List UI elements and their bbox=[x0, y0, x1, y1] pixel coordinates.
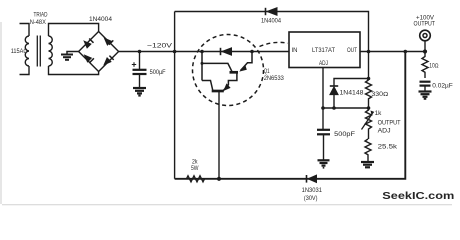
svg-text:ADJ: ADJ bbox=[319, 61, 328, 67]
svg-text:OUT: OUT bbox=[347, 48, 357, 54]
wire bottom rail bbox=[175, 52, 406, 179]
bridge diode D2 top-right bbox=[105, 38, 114, 45]
svg-text:500pF: 500pF bbox=[334, 132, 355, 138]
svg-text:2k: 2k bbox=[192, 160, 198, 166]
resistor R1 2k 5W bbox=[184, 176, 205, 182]
junction left riser on rail bbox=[173, 50, 177, 54]
svg-text:~120V: ~120V bbox=[147, 44, 172, 50]
junction C1 tap bbox=[138, 50, 142, 54]
regulator U1 LT317AT box bbox=[289, 32, 360, 68]
svg-text:500µF: 500µF bbox=[150, 70, 166, 76]
dashed callout to regulator bbox=[260, 42, 289, 46]
wire Q1 emitter to bottom rail bbox=[218, 91, 220, 179]
transistor Q1 driver emitter arrow bbox=[239, 65, 247, 72]
ground under R4 bbox=[361, 162, 374, 167]
transistor Q1 internal wiring bbox=[202, 52, 252, 91]
junction OUT bypass bbox=[367, 50, 371, 54]
wire top bypass bbox=[175, 12, 369, 52]
transformer T1 primary winding bbox=[20, 24, 30, 75]
svg-text:10Ω: 10Ω bbox=[429, 64, 439, 70]
Q1 dashed package circle bbox=[193, 35, 264, 106]
svg-text:1N4004: 1N4004 bbox=[261, 19, 282, 25]
resistor R5 10 ohm bbox=[422, 52, 428, 79]
svg-text:OUTPUT: OUTPUT bbox=[414, 22, 436, 28]
wire secondary bottom to bridge bbox=[49, 66, 99, 75]
svg-text:SeekIC.com: SeekIC.com bbox=[382, 191, 454, 202]
wire secondary top to bridge bbox=[49, 24, 99, 37]
svg-text:1N3031: 1N3031 bbox=[302, 188, 323, 194]
wire riser OUT to divider bbox=[368, 52, 370, 81]
capacitor C3 0.02uF bbox=[420, 82, 431, 91]
potentiometer R3 1k output adj bbox=[362, 108, 373, 139]
junction emitter bottom rail bbox=[217, 177, 221, 181]
svg-text:5W: 5W bbox=[191, 166, 199, 172]
wire OUT rail bbox=[360, 51, 425, 53]
bridge diode D4 bottom-right bbox=[104, 56, 114, 65]
svg-text:0.02µF: 0.02µF bbox=[432, 84, 453, 90]
junction D7 bottom bbox=[332, 106, 336, 110]
junction D7 top row bbox=[367, 77, 371, 81]
wire ADJ feedback row bbox=[323, 107, 369, 109]
output terminal J1 bbox=[420, 30, 431, 51]
transformer T1 core bbox=[37, 36, 40, 67]
junction Q1 base node bbox=[201, 62, 204, 65]
ground under C2 bbox=[318, 160, 330, 167]
diode D5 1N4004 on top bypass bbox=[266, 8, 278, 16]
scan artifact left edge bbox=[0, 22, 2, 204]
scan artifact bottom edge bbox=[2, 204, 452, 206]
ground under C1 bbox=[133, 88, 146, 96]
junction divider node bbox=[367, 106, 371, 110]
svg-text:1k: 1k bbox=[375, 111, 383, 117]
svg-text:TRIAD: TRIAD bbox=[34, 13, 49, 19]
transistor Q1 driver base bar bbox=[230, 71, 239, 74]
ground at bridge left vertex bbox=[61, 52, 79, 60]
potentiometer R3 wiper arrow bbox=[371, 111, 375, 116]
svg-text:ADJ: ADJ bbox=[378, 129, 391, 135]
capacitor C1 500uF bbox=[132, 52, 147, 88]
svg-text:+100V: +100V bbox=[416, 15, 434, 21]
svg-text:115AC: 115AC bbox=[11, 49, 28, 55]
junction Q1 rail right bbox=[250, 50, 254, 54]
wire ADJ pin down bbox=[322, 68, 324, 130]
diode D7 1N4148 bbox=[330, 79, 369, 109]
transistor Q1 output emitter arrow bbox=[223, 83, 230, 91]
svg-text:N-48X: N-48X bbox=[30, 20, 46, 26]
svg-text:LT317AT: LT317AT bbox=[312, 48, 335, 54]
bridge diode D1 top-left bbox=[84, 39, 93, 48]
svg-text:IN: IN bbox=[292, 48, 298, 54]
transformer T1 secondary winding bbox=[49, 36, 53, 66]
capacitor C2 500pF bbox=[317, 130, 330, 160]
wire main rail ~120V bbox=[119, 51, 289, 53]
junction OUT terminal bbox=[423, 49, 427, 53]
resistor R2 330 ohm bbox=[366, 80, 372, 108]
diode D8 1N3031 bbox=[307, 175, 317, 183]
junction Q1 rail left bbox=[200, 50, 204, 54]
bridge diode D3 bottom-left bbox=[85, 55, 94, 62]
svg-text:25.5k: 25.5k bbox=[378, 144, 399, 150]
resistor R4 25.5k bbox=[365, 139, 371, 162]
transistor Q1 output base bar bbox=[212, 90, 224, 93]
svg-text:1N4148: 1N4148 bbox=[340, 91, 365, 97]
svg-text:1N4004: 1N4004 bbox=[89, 17, 113, 23]
junction ADJ node bbox=[321, 106, 325, 110]
svg-text:2N6533: 2N6533 bbox=[264, 76, 285, 82]
svg-text:OUTPUT: OUTPUT bbox=[378, 120, 401, 126]
bridge rectifier frame bbox=[79, 32, 119, 72]
svg-text:330Ω: 330Ω bbox=[371, 92, 388, 98]
svg-text:Q1: Q1 bbox=[264, 69, 270, 75]
wire left riser top-bypass to bottom rail bbox=[174, 12, 176, 179]
junction OUT zener riser bbox=[404, 50, 408, 54]
ground under C3 bbox=[419, 92, 432, 99]
diode D6 internal bbox=[221, 48, 232, 55]
svg-text:(30V): (30V) bbox=[304, 196, 318, 202]
